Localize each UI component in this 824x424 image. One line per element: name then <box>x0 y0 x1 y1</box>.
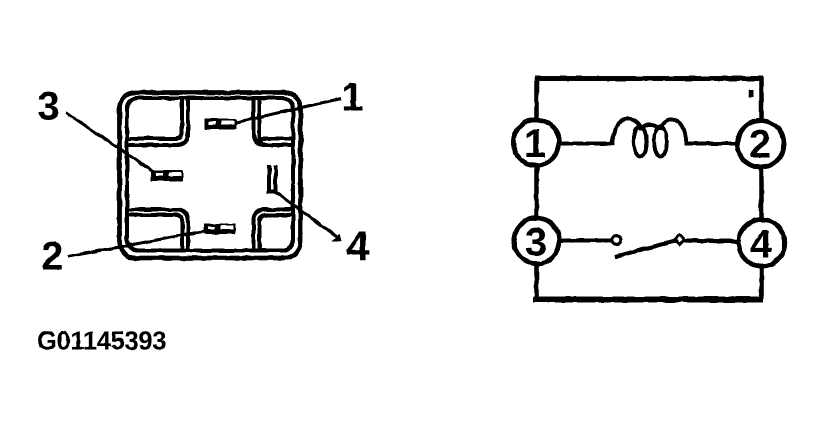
svg-text:1: 1 <box>524 122 546 166</box>
pin slot 2 (bottom) <box>204 224 236 235</box>
terminal circle 3 <box>514 218 560 264</box>
relay connector inner case liner <box>127 98 293 251</box>
svg-text:1: 1 <box>341 75 363 119</box>
switch fixed contact <box>612 236 621 245</box>
schematic box bottom wire <box>533 297 764 303</box>
leader line for pin 2 <box>68 231 208 257</box>
connector center cross inner contour <box>126 98 294 252</box>
relay coil winding <box>612 119 687 157</box>
pin slot 4 (right, vertical) <box>269 165 276 192</box>
leader line for pin 3 <box>66 113 155 174</box>
coil wire right <box>686 142 738 146</box>
svg-text:4: 4 <box>750 222 773 266</box>
switch blade <box>616 241 678 257</box>
switch moving contact diamond <box>675 235 684 244</box>
terminal circle 2 <box>737 121 784 168</box>
coil wire left <box>560 142 614 146</box>
terminal circle 4 <box>738 220 785 267</box>
switch wire from 3 <box>560 239 612 243</box>
svg-text:3: 3 <box>37 85 59 129</box>
svg-text:2: 2 <box>41 235 63 279</box>
schematic box left wire segments <box>534 77 538 299</box>
leader 4 arrowhead <box>332 235 342 242</box>
pin slot 1 (top) <box>205 119 237 130</box>
terminal circle 1 <box>513 120 559 166</box>
switch wire to 4 <box>685 241 740 242</box>
pin slot 3 (left) <box>151 170 183 181</box>
svg-text:3: 3 <box>525 220 547 264</box>
svg-text:2: 2 <box>749 123 771 167</box>
leader line for pin 1 <box>236 99 341 123</box>
stray tick mark top-right <box>749 90 753 97</box>
schematic box top wire <box>535 76 764 81</box>
relay connector outer case outline <box>120 93 301 259</box>
connector center cross outer contour <box>126 98 294 252</box>
leader line for pin 4 <box>273 191 337 237</box>
schematic box right wire segments <box>759 77 763 299</box>
svg-text:4: 4 <box>346 223 370 270</box>
svg-text:G01145393: G01145393 <box>37 328 166 356</box>
